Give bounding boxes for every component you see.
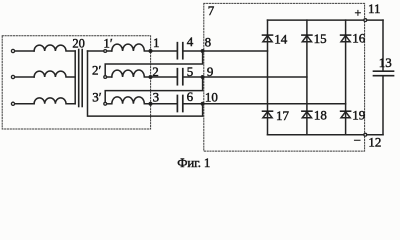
transformer core [78,50,80,107]
svg-text:20: 20 [72,36,85,50]
diode D16 [341,34,351,41]
svg-text:Фиг. 1: Фиг. 1 [177,155,210,169]
svg-text:12: 12 [368,134,381,149]
svg-text:16: 16 [352,31,366,46]
svg-text:18: 18 [314,107,327,122]
svg-text:14: 14 [274,31,288,46]
diode D18 [302,110,312,117]
svg-text:19: 19 [352,107,365,122]
capacitor C6 [176,96,178,112]
svg-text:1′: 1′ [103,36,113,51]
secondary winding 2' [104,70,151,78]
svg-text:3′: 3′ [92,90,102,105]
svg-text:13: 13 [379,55,392,70]
primary winding L1a [11,45,75,53]
svg-text:5: 5 [187,64,194,79]
diode D15 [302,34,312,41]
primary winding L1b [11,71,75,79]
node 9 [201,76,204,79]
secondary winding 1' [88,44,151,52]
node 10 [201,102,204,105]
bridge column a [267,20,269,135]
wire terminal 3' to node 9 [105,78,202,103]
diode D19 [341,110,351,117]
bridge top rail [268,19,384,21]
dashed enclosure transformer block [2,36,150,129]
bridge column c [345,20,347,135]
wire capacitor 13 bottom [382,77,384,135]
wire to capacitor 13 top [382,20,384,70]
svg-text:10: 10 [205,89,218,104]
node 3 [149,102,152,105]
svg-text:9: 9 [207,64,214,79]
svg-text:2: 2 [152,64,159,79]
capacitor C13 [374,70,394,72]
wire node3 to capacitor 6 [151,103,177,105]
capacitor C4 [176,43,178,59]
bridge bottom rail [268,134,384,136]
svg-text:+: + [355,5,362,19]
wire terminal 2' to node 8 [105,52,202,76]
svg-text:11: 11 [368,1,381,16]
diode D14 [263,34,273,41]
wire 10 into bridge [184,103,346,105]
primary winding L1c [11,98,75,106]
output terminal 11 [364,19,367,22]
capacitor C5 [176,69,178,85]
diode D17 [263,110,273,117]
wire 9 into bridge [184,76,307,78]
svg-text:1: 1 [153,35,160,50]
svg-text:15: 15 [314,31,327,46]
svg-text:–: – [353,132,361,146]
secondary winding 3' [104,97,151,105]
svg-text:6: 6 [187,89,194,104]
svg-text:7: 7 [208,3,215,18]
svg-text:3: 3 [153,90,160,105]
node 8 [201,50,204,53]
bridge column b [306,20,308,135]
primary star bus [74,51,76,104]
wire terminal 1' to node 10 (bottom link) [88,51,203,116]
svg-text:8: 8 [205,35,212,50]
node 2 [149,76,152,79]
dashed enclosure rectifier block 7 [204,3,365,151]
node 1 [149,50,152,53]
wire 8 into bridge [184,50,268,52]
wire node1 to capacitor 4 [151,50,177,52]
wire node2 to capacitor 5 [151,76,177,78]
output terminal 12 [364,133,367,136]
svg-text:2′: 2′ [92,62,102,77]
svg-text:17: 17 [276,108,290,123]
svg-text:4: 4 [187,34,194,49]
